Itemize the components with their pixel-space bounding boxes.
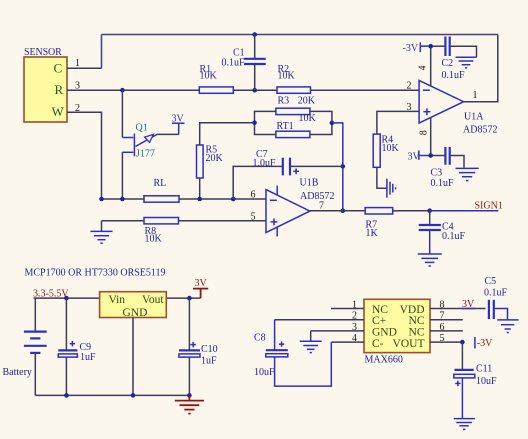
wire R3/RT1 left side bbox=[255, 111, 276, 134]
ground (C2) bbox=[456, 57, 477, 68]
svg-text:U1B: U1B bbox=[300, 178, 319, 189]
wire R8 row to U1B pin5 bbox=[102, 220, 266, 222]
svg-text:1: 1 bbox=[473, 90, 478, 101]
capacitor C7 bbox=[233, 149, 343, 199]
svg-text:0.1uF: 0.1uF bbox=[431, 178, 455, 189]
wire Q1 drain to 3V bbox=[157, 133, 179, 135]
wire bottom rail bbox=[35, 394, 189, 396]
ground (C3) bbox=[456, 168, 479, 180]
node R3/RT1 right bbox=[330, 121, 335, 126]
svg-text:3V: 3V bbox=[172, 113, 185, 124]
sensor U? SENSOR box bbox=[24, 47, 67, 122]
capacitor C5 bbox=[484, 276, 508, 319]
wire R5 top to R3/RT1 bbox=[200, 123, 255, 145]
svg-text:10K: 10K bbox=[382, 143, 400, 154]
wire Q1 source down to RL row bbox=[121, 152, 123, 199]
ground (C11) bbox=[454, 419, 475, 430]
node top rail / C1 junction bbox=[252, 32, 257, 37]
svg-text:20K: 20K bbox=[206, 153, 224, 164]
wire MAX660 pin2 bbox=[275, 319, 364, 321]
capacitor C1 bbox=[222, 35, 266, 91]
svg-text:Vin: Vin bbox=[109, 294, 126, 306]
resistor RL bbox=[144, 178, 179, 202]
wire R3/RT1 right side bbox=[310, 111, 332, 134]
svg-text:C2: C2 bbox=[442, 58, 454, 69]
wire R junction down to Q1 bbox=[121, 90, 123, 137]
svg-text:Vout: Vout bbox=[142, 294, 164, 306]
svg-text:8: 8 bbox=[419, 130, 430, 135]
svg-text:1K: 1K bbox=[366, 228, 379, 239]
node feedback / C7 bbox=[341, 164, 346, 169]
resistor R2 bbox=[277, 64, 311, 93]
node C10 bottom bbox=[187, 393, 192, 398]
svg-text:RL: RL bbox=[154, 178, 167, 189]
svg-text:0.1uF: 0.1uF bbox=[442, 231, 466, 242]
svg-text:0.1uF: 0.1uF bbox=[442, 70, 466, 81]
node C7 left / pin6 row bbox=[231, 197, 236, 202]
wire U1A top power stub bbox=[430, 46, 432, 86]
node RL left bbox=[99, 197, 104, 202]
svg-text:GND: GND bbox=[123, 307, 148, 319]
svg-text:AD8572: AD8572 bbox=[300, 191, 334, 202]
svg-text:1: 1 bbox=[75, 58, 80, 69]
op-amp U1B AD8572 bbox=[266, 178, 334, 237]
node R3/RT1 left / R5 top bbox=[252, 120, 257, 125]
capacitor C10 bbox=[179, 298, 218, 395]
wire feedback to U1B output bbox=[332, 123, 343, 211]
svg-text:J177: J177 bbox=[136, 149, 155, 160]
node feedback / output bbox=[341, 208, 346, 213]
wire to SIGN1 bbox=[430, 210, 499, 212]
svg-text:RT1: RT1 bbox=[277, 121, 294, 132]
svg-text:10uF: 10uF bbox=[476, 376, 497, 387]
svg-text:10K: 10K bbox=[299, 113, 317, 124]
svg-text:C8: C8 bbox=[254, 333, 266, 344]
svg-text:-3V: -3V bbox=[477, 338, 493, 349]
power -3V (MAX660) bbox=[475, 337, 493, 349]
svg-text:1uF: 1uF bbox=[80, 352, 96, 363]
wire top feedback rail bbox=[102, 34, 498, 36]
node C9 top bbox=[64, 296, 69, 301]
svg-text:NC: NC bbox=[409, 315, 425, 327]
svg-text:10uF: 10uF bbox=[254, 367, 275, 378]
svg-text:C-: C- bbox=[372, 338, 384, 350]
wire R7 to SIGN1 node bbox=[393, 210, 430, 212]
svg-text:C11: C11 bbox=[476, 363, 492, 374]
node MAX660 pin5 / C11 bbox=[460, 340, 465, 345]
capacitor C4 bbox=[419, 211, 466, 254]
svg-text:10K: 10K bbox=[200, 71, 218, 82]
svg-text:AD8572: AD8572 bbox=[463, 125, 497, 136]
regulator U? box bbox=[100, 292, 167, 319]
wire R4 bottom to ground bbox=[377, 167, 387, 188]
resistor R4 bbox=[373, 134, 399, 167]
node R5 bottom / RL row bbox=[197, 197, 202, 202]
node C10 top bbox=[187, 296, 192, 301]
svg-text:10K: 10K bbox=[145, 233, 163, 244]
capacitor C2 bbox=[442, 37, 477, 81]
svg-text:R: R bbox=[55, 82, 64, 97]
svg-text:NC: NC bbox=[409, 327, 425, 339]
svg-text:C5: C5 bbox=[485, 276, 497, 287]
wire sensor C pin to top rail bbox=[67, 67, 102, 69]
node 3V / U1A pin8 bbox=[428, 153, 433, 158]
ground (C4) bbox=[418, 254, 442, 266]
wire MAX660 pin3 bbox=[311, 330, 364, 332]
svg-text:Q1: Q1 bbox=[136, 122, 148, 133]
svg-text:MCP1700 OR HT7330 ORSE5119: MCP1700 OR HT7330 ORSE5119 bbox=[25, 268, 166, 279]
svg-text:3V: 3V bbox=[195, 278, 208, 289]
wire MAX660 pin5 bbox=[430, 341, 463, 343]
power ground (red) bbox=[175, 395, 204, 413]
svg-text:SENSOR: SENSOR bbox=[24, 47, 62, 58]
capacitor C8 bbox=[254, 320, 331, 386]
node Q1 source / RL row bbox=[120, 197, 125, 202]
ground (MAX660 pin3) bbox=[300, 331, 322, 353]
wire U1B output row bbox=[310, 210, 365, 212]
svg-text:W: W bbox=[52, 104, 65, 119]
svg-text:Battery: Battery bbox=[3, 367, 32, 378]
svg-text:GND: GND bbox=[372, 327, 397, 339]
power -3V (U1A) bbox=[403, 42, 421, 54]
power 3V (regulator out) bbox=[193, 278, 208, 298]
svg-text:C: C bbox=[54, 61, 63, 76]
wire 3V to C3 bbox=[420, 155, 432, 157]
ground (R4, sideways) bbox=[387, 179, 396, 198]
capacitor C9 bbox=[58, 298, 96, 395]
wire R5 bottom bbox=[199, 178, 201, 199]
node C9 bottom bbox=[64, 393, 69, 398]
wire U1A pin3 to R4 bbox=[377, 111, 419, 134]
wire MAX660 pin4 bbox=[331, 341, 364, 343]
chip U? MAX660 box bbox=[364, 299, 430, 365]
svg-text:-3V: -3V bbox=[403, 43, 419, 54]
svg-text:4: 4 bbox=[418, 66, 429, 71]
svg-text:0.1uF: 0.1uF bbox=[222, 58, 246, 69]
svg-text:2: 2 bbox=[407, 81, 412, 92]
battery BT? bbox=[3, 298, 47, 395]
wire RL row to U1B pin6 bbox=[102, 198, 266, 200]
svg-text:NC: NC bbox=[372, 304, 388, 316]
node R row / Q1 branch bbox=[120, 88, 125, 93]
ground (R8 left) bbox=[91, 221, 113, 244]
svg-text:3V: 3V bbox=[408, 152, 421, 163]
power 3V (Q1) bbox=[172, 113, 185, 124]
node R row / C1 bottom bbox=[252, 88, 257, 93]
wire -3V to C2 bbox=[421, 45, 432, 47]
resistor R7 bbox=[365, 208, 393, 239]
resistor R8 bbox=[144, 218, 179, 245]
svg-text:R3: R3 bbox=[278, 95, 290, 106]
wire MAX660 pin1 stub bbox=[331, 308, 364, 310]
op-amp U1A AD8572 bbox=[419, 80, 497, 135]
node output / C4 bbox=[427, 208, 432, 213]
svg-text:20K: 20K bbox=[298, 96, 316, 107]
wire regulator GND down bbox=[132, 318, 134, 396]
svg-text:C+: C+ bbox=[372, 315, 386, 327]
wire Vout rail bbox=[166, 297, 200, 299]
svg-text:SIGN1: SIGN1 bbox=[475, 201, 503, 212]
ground (C5) bbox=[497, 320, 518, 333]
svg-text:C10: C10 bbox=[201, 344, 218, 355]
wire MAX660 pin6 stub bbox=[430, 330, 463, 332]
wire U1A output to top rail bbox=[464, 35, 498, 102]
svg-text:10K: 10K bbox=[278, 71, 296, 82]
transistor Q1 J177 bbox=[122, 122, 157, 159]
wire sensor W pin down to RL row bbox=[67, 112, 102, 199]
node GND bottom bbox=[131, 393, 136, 398]
resistor R3 bbox=[276, 95, 316, 114]
svg-text:U1A: U1A bbox=[464, 111, 484, 122]
capacitor C11 bbox=[454, 342, 497, 418]
resistor R5 bbox=[197, 145, 224, 179]
power 3V (U1A) bbox=[408, 150, 421, 162]
wire MAX660 pin8 to C5 bbox=[430, 308, 486, 310]
svg-text:VDD: VDD bbox=[400, 304, 425, 316]
resistor R1 bbox=[199, 64, 233, 93]
svg-text:C3: C3 bbox=[431, 167, 443, 178]
wire battery top rail bbox=[34, 297, 100, 299]
wire sensor R pin row to U1A pin2 bbox=[67, 89, 419, 91]
capacitor C3 bbox=[431, 147, 465, 189]
resistor RT1 bbox=[276, 113, 317, 138]
svg-text:VOUT: VOUT bbox=[393, 338, 425, 350]
wire MAX660 pin7 stub bbox=[430, 319, 463, 321]
svg-text:7: 7 bbox=[319, 200, 324, 211]
svg-text:1.0uF: 1.0uF bbox=[253, 158, 277, 169]
svg-text:0.1uF: 0.1uF bbox=[484, 287, 508, 298]
svg-text:1uF: 1uF bbox=[201, 355, 217, 366]
wire U1A bottom power stub bbox=[430, 118, 432, 156]
svg-text:6: 6 bbox=[251, 190, 256, 201]
node -3V / U1A pin4 bbox=[428, 44, 433, 49]
svg-text:MAX660: MAX660 bbox=[365, 355, 403, 366]
